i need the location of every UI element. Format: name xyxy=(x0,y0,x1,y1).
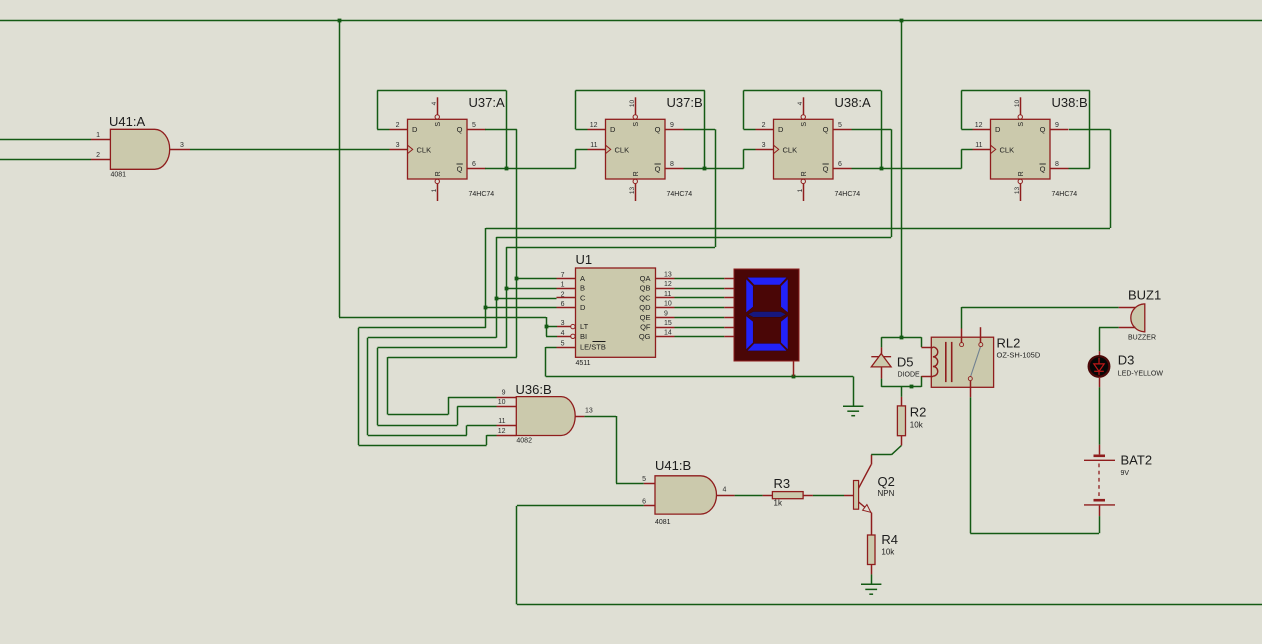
wire relay/diode bottom net xyxy=(881,386,921,388)
ground symbol (R4) xyxy=(861,583,881,585)
wire to BI U1 xyxy=(546,336,557,338)
pin 3 stub U41:A output xyxy=(170,149,190,151)
battery bottom stub xyxy=(1099,506,1101,516)
pin QF stub U1 xyxy=(656,327,675,329)
relay NC pin stub xyxy=(980,327,982,342)
pin QB stub U1 xyxy=(656,288,675,290)
wire U41:B out to R3 xyxy=(735,495,763,497)
pin S stub U38:A xyxy=(803,97,805,114)
clock wedge U38:A xyxy=(774,145,779,153)
wire down to ground xyxy=(853,377,855,407)
wire QA to display xyxy=(675,278,725,280)
pin QC stub U1 xyxy=(656,297,675,299)
svg-text:CLK: CLK xyxy=(783,145,798,154)
pin QG stub U1 xyxy=(656,336,675,338)
R4 bottom stub xyxy=(871,565,873,575)
segment e xyxy=(746,316,753,350)
pin Qbar stub U37:B xyxy=(665,168,684,170)
svg-text:2: 2 xyxy=(396,122,400,129)
gate U36:B (4082 4-input AND) xyxy=(516,397,575,436)
svg-text:9: 9 xyxy=(670,122,674,129)
svg-text:9: 9 xyxy=(664,310,668,317)
display common pin stub xyxy=(793,361,795,377)
svg-text:6: 6 xyxy=(561,301,565,308)
svg-text:D: D xyxy=(610,125,616,134)
pin S bubble U37:B xyxy=(633,115,637,119)
svg-text:13: 13 xyxy=(629,187,636,195)
flip-flop U38:A (74HC74) xyxy=(774,119,834,179)
pin A stub U1 xyxy=(557,278,576,280)
junction node C xyxy=(495,297,499,301)
svg-text:Q: Q xyxy=(823,165,829,174)
wire U41:B pin6 to bottom rail xyxy=(517,505,644,507)
svg-text:12: 12 xyxy=(975,122,983,129)
pin CLK stub U38:B xyxy=(973,149,991,151)
svg-text:LT: LT xyxy=(580,322,589,331)
relay coil bottom pin xyxy=(921,376,933,378)
wire U38:A Qbar to U38:B CLK xyxy=(852,168,962,170)
svg-text:3: 3 xyxy=(762,142,766,149)
pin BI stub U1 xyxy=(557,336,571,338)
wire to D5 cathode xyxy=(881,337,883,347)
wire QB to display xyxy=(675,288,725,290)
svg-text:S: S xyxy=(633,122,640,127)
svg-text:2: 2 xyxy=(762,122,766,129)
wire QD to display xyxy=(675,307,725,309)
wire R2 to coil net xyxy=(901,387,903,397)
pin CLK stub U38:A xyxy=(756,149,774,151)
segment g xyxy=(748,312,786,318)
ground symbol (display common) xyxy=(843,405,863,407)
wire U38:B feedback Qbar to D xyxy=(961,129,972,131)
pin Qbar stub U38:A xyxy=(833,168,852,170)
svg-text:QB: QB xyxy=(640,284,651,293)
svg-text:U41:B: U41:B xyxy=(655,458,691,473)
wire relay/diode top net xyxy=(881,337,921,339)
pin D stub U38:B xyxy=(973,129,991,131)
svg-text:10: 10 xyxy=(498,399,506,406)
pin 10 stub U36:B xyxy=(497,406,517,408)
R2 bottom stub xyxy=(901,436,903,446)
svg-text:6: 6 xyxy=(642,499,646,506)
svg-text:Q2: Q2 xyxy=(878,474,895,489)
resistor R4 xyxy=(868,535,876,565)
svg-text:R: R xyxy=(633,171,640,176)
segment a xyxy=(747,277,787,285)
wire battery to relay NO xyxy=(1099,516,1101,533)
svg-text:4082: 4082 xyxy=(516,437,532,444)
svg-text:9V: 9V xyxy=(1121,470,1130,477)
pin D stub U37:B xyxy=(588,129,606,131)
display pin stub QB xyxy=(724,288,734,290)
junction LT xyxy=(545,325,549,329)
Q2 base stub xyxy=(844,495,854,497)
pin Q stub U38:B xyxy=(1050,129,1069,131)
wire U37:B Qbar to U38:A CLK xyxy=(684,168,744,170)
R2 top stub xyxy=(901,397,903,406)
pin Qbar stub U37:A xyxy=(467,168,486,170)
svg-text:OZ-SH-105D: OZ-SH-105D xyxy=(997,351,1041,360)
svg-text:R2: R2 xyxy=(910,405,927,420)
svg-text:S: S xyxy=(1018,122,1025,127)
svg-text:12: 12 xyxy=(664,281,672,288)
wire LT/BI net xyxy=(339,317,546,319)
svg-text:U37:B: U37:B xyxy=(667,95,703,110)
svg-text:7: 7 xyxy=(561,272,565,279)
wire U37:A Qbar to U37:B CLK xyxy=(485,168,576,170)
junction node D xyxy=(484,306,488,310)
svg-text:3: 3 xyxy=(561,320,565,327)
svg-text:Q: Q xyxy=(655,125,661,134)
junction relay top net xyxy=(900,336,904,340)
junction U38:A Qbar xyxy=(880,167,884,171)
svg-text:13: 13 xyxy=(664,272,672,279)
gate U41:B (4081 AND) xyxy=(655,476,717,514)
svg-text:U1: U1 xyxy=(576,252,593,267)
wire input 2 of U41:A xyxy=(0,159,91,161)
segment c xyxy=(781,316,788,350)
wire to LT U1 xyxy=(546,326,557,328)
pin D stub U37:A xyxy=(390,129,408,131)
svg-text:4511: 4511 xyxy=(576,360,591,367)
junction U37:B Qbar xyxy=(703,167,707,171)
relay core xyxy=(945,342,947,382)
clock wedge U37:B xyxy=(606,145,611,153)
pin S bubble U38:B xyxy=(1018,115,1022,119)
wire QG to display xyxy=(675,336,725,338)
pin Q stub U38:A xyxy=(833,129,852,131)
svg-text:5: 5 xyxy=(561,341,565,348)
svg-text:10: 10 xyxy=(1014,100,1021,108)
pin 13 stub U36:B output xyxy=(575,416,584,418)
Q2 collector xyxy=(859,465,872,489)
svg-text:R: R xyxy=(435,171,442,176)
clock wedge U38:B xyxy=(991,145,996,153)
junction relay bottom net xyxy=(910,385,914,389)
svg-text:6: 6 xyxy=(838,161,842,168)
display pin stub QC xyxy=(724,297,734,299)
svg-text:3: 3 xyxy=(396,142,400,149)
svg-text:74HC74: 74HC74 xyxy=(469,191,495,198)
pin LT stub U1 xyxy=(557,326,571,328)
wire D net to U36 pin 12 xyxy=(359,327,486,329)
svg-text:12: 12 xyxy=(590,122,598,129)
svg-text:Q: Q xyxy=(655,165,661,174)
pin C stub U1 xyxy=(557,297,576,299)
svg-text:5: 5 xyxy=(838,122,842,129)
svg-text:4: 4 xyxy=(561,330,565,337)
gate U41:A (4081 AND) xyxy=(110,129,169,169)
wire LE/STB to ground net xyxy=(546,347,557,349)
svg-text:13: 13 xyxy=(585,408,593,415)
Q2 emitter xyxy=(859,502,872,513)
wire LED to battery xyxy=(1099,387,1101,445)
svg-text:LE/STB: LE/STB xyxy=(580,343,606,352)
pin Q stub U37:A xyxy=(467,129,486,131)
svg-text:10k: 10k xyxy=(881,548,895,557)
pin D stub U1 xyxy=(557,307,576,309)
pin 1 stub U41:A xyxy=(91,139,110,141)
svg-text:74HC74: 74HC74 xyxy=(835,191,861,198)
D5 anode stub xyxy=(881,367,883,379)
pin R stub U38:A xyxy=(803,184,805,201)
pin QE stub U1 xyxy=(656,317,675,319)
svg-text:QC: QC xyxy=(639,293,651,302)
wire U37:B Q to U1 B xyxy=(684,129,716,131)
svg-text:4081: 4081 xyxy=(655,519,671,526)
pin B stub U1 xyxy=(557,288,576,290)
pin 4 stub U41:B output xyxy=(717,495,735,497)
svg-text:11: 11 xyxy=(498,418,505,425)
svg-text:1: 1 xyxy=(797,188,804,192)
pin R bubble U37:B xyxy=(633,179,637,183)
buzzer BUZ1 xyxy=(1131,304,1145,332)
segment b xyxy=(781,279,788,313)
svg-text:CLK: CLK xyxy=(1000,145,1015,154)
junction top rail / LT-BI riser xyxy=(338,19,342,23)
R3 left stub xyxy=(763,495,773,497)
pin CLK stub U37:B xyxy=(588,149,606,151)
svg-text:11: 11 xyxy=(664,291,671,298)
LED bottom stub xyxy=(1099,377,1101,387)
display pin stub QA xyxy=(724,278,734,280)
svg-text:13: 13 xyxy=(1014,187,1021,195)
wire U37:B feedback Qbar to D xyxy=(576,129,588,131)
pin 5 stub U41:B xyxy=(644,483,655,485)
flip-flop U38:B (74HC74) xyxy=(991,119,1051,179)
svg-text:Q: Q xyxy=(1040,125,1046,134)
svg-text:D3: D3 xyxy=(1118,353,1135,368)
svg-text:9: 9 xyxy=(1055,122,1059,129)
svg-text:CLK: CLK xyxy=(417,145,432,154)
R3 right stub xyxy=(803,495,813,497)
svg-text:74HC74: 74HC74 xyxy=(1052,191,1078,198)
svg-text:10k: 10k xyxy=(910,421,924,430)
svg-text:U41:A: U41:A xyxy=(109,114,145,129)
wire QE to display xyxy=(675,317,725,319)
pin 12 stub U36:B xyxy=(497,435,517,437)
pin S stub U37:B xyxy=(635,97,637,114)
svg-text:LED-YELLOW: LED-YELLOW xyxy=(1118,370,1164,377)
svg-text:U38:A: U38:A xyxy=(835,95,871,110)
svg-text:Q: Q xyxy=(1040,165,1046,174)
pin 9 stub U36:B xyxy=(497,397,517,399)
svg-text:2: 2 xyxy=(561,291,565,298)
svg-text:BUZZER: BUZZER xyxy=(1128,335,1156,342)
7-segment display xyxy=(734,269,799,361)
svg-text:4: 4 xyxy=(431,101,438,105)
relay coil top pin xyxy=(921,347,933,349)
svg-text:RL2: RL2 xyxy=(997,336,1021,351)
svg-text:74HC74: 74HC74 xyxy=(667,191,693,198)
wire A net to U36 pin 9 xyxy=(388,357,517,359)
svg-text:BAT2: BAT2 xyxy=(1121,453,1153,468)
svg-text:D: D xyxy=(995,125,1001,134)
LED D3 (LED-YELLOW) xyxy=(1089,356,1110,377)
wire D5 anode down xyxy=(881,379,883,387)
D5 cathode stub xyxy=(881,347,883,356)
wire C net to U36 pin 11 xyxy=(368,337,497,339)
svg-text:S: S xyxy=(801,122,808,127)
wire U38:A Q to U1 C xyxy=(852,129,892,131)
display pin stub QD xyxy=(724,307,734,309)
pin S stub U37:A xyxy=(437,97,439,114)
svg-text:R3: R3 xyxy=(774,476,791,491)
relay contacts xyxy=(971,347,981,377)
flip-flop U37:A (74HC74) xyxy=(408,119,468,179)
wire riser to relay/diode net xyxy=(901,20,903,337)
relay common pin stub xyxy=(961,329,963,343)
svg-text:4: 4 xyxy=(723,487,727,494)
svg-text:15: 15 xyxy=(664,320,672,327)
wire Q2 emitter to R4 xyxy=(871,513,873,535)
wire bottom rail xyxy=(517,604,1262,606)
wire U41:A out to U37:A CLK xyxy=(190,149,390,151)
svg-text:D: D xyxy=(580,303,586,312)
svg-text:4081: 4081 xyxy=(111,172,127,179)
svg-text:5: 5 xyxy=(642,476,646,483)
wire U38:B Q to U1 D xyxy=(1069,129,1110,131)
resistor R2 xyxy=(897,406,905,436)
wire R4 to ground xyxy=(871,574,873,584)
relay RL2 xyxy=(931,337,993,387)
svg-text:QG: QG xyxy=(639,332,651,341)
wire R3 to Q2 base xyxy=(813,495,844,497)
svg-text:5: 5 xyxy=(472,122,476,129)
svg-text:R: R xyxy=(1018,171,1025,176)
pin R bubble U38:A xyxy=(801,179,805,183)
IC U1 (4511 BCD to 7-segment latch/decoder) xyxy=(576,268,656,357)
pin LE/STB stub U1 xyxy=(557,347,576,349)
pin D stub U38:A xyxy=(756,129,774,131)
svg-text:BI: BI xyxy=(580,332,587,341)
pin 6 stub U41:B xyxy=(644,505,655,507)
svg-text:9: 9 xyxy=(502,390,506,397)
svg-text:U38:B: U38:B xyxy=(1052,95,1088,110)
svg-text:D: D xyxy=(778,125,784,134)
wire B net to U36 pin 10 xyxy=(378,347,507,349)
display pin stub QE xyxy=(724,317,734,319)
svg-text:8: 8 xyxy=(670,161,674,168)
pin CLK stub U37:A xyxy=(390,149,408,151)
buzzer pin 2 stub xyxy=(1119,327,1136,329)
pin Q stub U37:B xyxy=(665,129,684,131)
svg-text:DIODE: DIODE xyxy=(898,372,921,379)
pin QA stub U1 xyxy=(656,278,675,280)
svg-text:QF: QF xyxy=(640,323,651,332)
svg-text:1: 1 xyxy=(96,132,100,139)
segment f xyxy=(746,279,753,313)
svg-text:A: A xyxy=(580,274,585,283)
svg-text:NPN: NPN xyxy=(878,489,895,498)
buzzer pin 1 stub xyxy=(1119,307,1136,309)
junction top rail / relay riser xyxy=(900,19,904,23)
svg-text:Q: Q xyxy=(457,165,463,174)
flip-flop U37:B (74HC74) xyxy=(606,119,666,179)
wire U38:A feedback Qbar to D xyxy=(744,129,756,131)
wire U37:A Q to U1 A xyxy=(485,129,517,131)
battery top stub xyxy=(1099,445,1101,455)
junction display common xyxy=(792,375,796,379)
svg-text:8: 8 xyxy=(1055,161,1059,168)
svg-text:D5: D5 xyxy=(897,355,914,370)
wire QF to display xyxy=(675,327,725,329)
pin R stub U37:B xyxy=(635,184,637,201)
svg-text:10: 10 xyxy=(629,100,636,108)
junction node A xyxy=(515,277,519,281)
svg-text:6: 6 xyxy=(472,161,476,168)
svg-text:QA: QA xyxy=(640,274,651,283)
wire top rail xyxy=(0,20,1262,22)
pin R bubble U37:A xyxy=(435,179,439,183)
pin R bubble U38:B xyxy=(1018,179,1022,183)
svg-text:11: 11 xyxy=(590,142,597,149)
segment d xyxy=(747,343,787,351)
svg-text:CLK: CLK xyxy=(615,145,630,154)
svg-text:2: 2 xyxy=(96,152,100,159)
svg-text:1: 1 xyxy=(431,188,438,192)
wire U37:A feedback Qbar to D xyxy=(377,129,389,131)
svg-text:QE: QE xyxy=(640,313,651,322)
svg-text:1: 1 xyxy=(561,282,565,289)
display pin stub QF xyxy=(724,327,734,329)
wire to ground xyxy=(793,376,853,378)
svg-text:Q: Q xyxy=(457,125,463,134)
pin S stub U38:B xyxy=(1020,97,1022,114)
pin R stub U38:B xyxy=(1020,184,1022,201)
pin QD stub U1 xyxy=(656,307,675,309)
svg-text:3: 3 xyxy=(180,142,184,149)
svg-text:Q: Q xyxy=(823,125,829,134)
svg-text:S: S xyxy=(435,122,442,127)
pin 2 stub U41:A xyxy=(91,159,110,161)
clock wedge U37:A xyxy=(408,145,413,153)
junction node B xyxy=(505,287,509,291)
pin 11 stub U36:B xyxy=(497,425,517,427)
display pin stub QG xyxy=(724,336,734,338)
svg-text:B: B xyxy=(580,284,585,293)
svg-text:4: 4 xyxy=(797,101,804,105)
wire buzzer to LED xyxy=(1099,327,1119,329)
pin R stub U37:A xyxy=(437,184,439,201)
wire input 1 of U41:A xyxy=(0,139,91,141)
wire Q2 collector to R2 xyxy=(871,454,891,456)
svg-text:C: C xyxy=(580,293,586,302)
junction U37:A Qbar xyxy=(505,167,509,171)
wire U36:B out to U41:B pin5 xyxy=(584,416,616,418)
svg-text:U36:B: U36:B xyxy=(516,382,552,397)
svg-text:R4: R4 xyxy=(881,532,898,547)
pin Qbar stub U38:B xyxy=(1050,168,1069,170)
wire relay NO down to battery return xyxy=(970,397,972,533)
svg-text:U37:A: U37:A xyxy=(469,95,505,110)
svg-text:14: 14 xyxy=(664,330,672,337)
pin S bubble U37:A xyxy=(435,115,439,119)
wire QC to display xyxy=(675,297,725,299)
svg-text:QD: QD xyxy=(639,303,651,312)
relay coil xyxy=(933,347,938,376)
svg-text:1k: 1k xyxy=(774,499,783,508)
svg-text:D: D xyxy=(412,125,418,134)
svg-text:BUZ1: BUZ1 xyxy=(1128,288,1161,303)
svg-text:10: 10 xyxy=(664,301,672,308)
wire riser to LT/BI net xyxy=(339,20,341,317)
pin S bubble U38:A xyxy=(801,115,805,119)
relay NO pin stub xyxy=(970,381,972,398)
wire relay common to buzzer xyxy=(961,307,963,329)
svg-text:12: 12 xyxy=(498,428,506,435)
svg-text:R: R xyxy=(801,171,808,176)
